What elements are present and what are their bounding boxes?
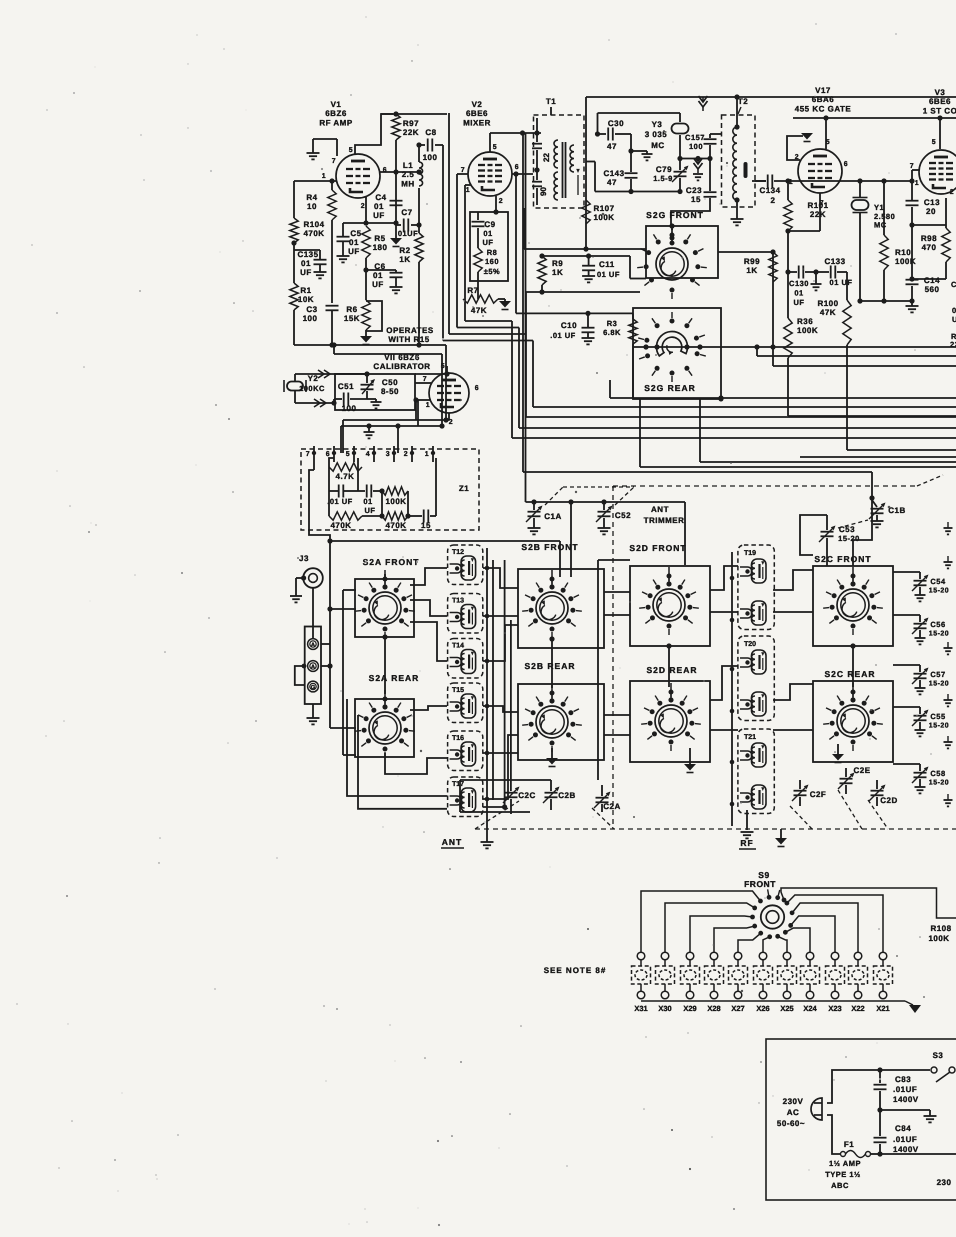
svg-text:C2D: C2D <box>880 796 898 805</box>
svg-text:R3: R3 <box>607 319 618 328</box>
svg-text:C55: C55 <box>930 712 945 721</box>
rotary switch S2D FRONT <box>639 567 699 635</box>
svg-text:100: 100 <box>689 142 703 151</box>
svg-text:100: 100 <box>303 314 318 323</box>
svg-text:180: 180 <box>373 243 388 252</box>
svg-text:15-20: 15-20 <box>929 780 949 787</box>
test point antenna symbol mid <box>693 156 703 181</box>
svg-text:6: 6 <box>326 451 330 458</box>
variable capacitor C53 <box>800 515 860 566</box>
svg-text:RF: RF <box>740 838 753 848</box>
capacitor C157 <box>685 133 721 159</box>
svg-text:15-20: 15-20 <box>929 723 949 730</box>
wires S2D to T19-21 <box>710 566 738 730</box>
svg-text:C130: C130 <box>789 279 809 288</box>
svg-text:OPERATES: OPERATES <box>386 326 434 335</box>
svg-text:UF: UF <box>365 506 376 515</box>
tube V1 6BZ6 RF AMP <box>319 100 380 198</box>
variable capacitor C1B <box>853 498 906 566</box>
capacitor C14 <box>906 222 941 306</box>
svg-text:TRIMMER: TRIMMER <box>644 516 685 525</box>
variable capacitor C58 <box>893 764 949 793</box>
svg-text:X28: X28 <box>707 1004 720 1013</box>
svg-text:6BE6: 6BE6 <box>929 97 951 106</box>
capacitor C13 <box>906 178 941 225</box>
resistor R104 <box>290 181 325 246</box>
svg-text:R1: R1 <box>300 286 311 295</box>
power supply enclosure <box>766 1039 956 1200</box>
rotary switch S2G FRONT <box>637 226 707 299</box>
wires between S2B and S2D <box>598 560 630 780</box>
svg-text:X22: X22 <box>851 1004 864 1013</box>
rotary switch S2C REAR <box>823 683 883 751</box>
rotary switch S9 <box>761 905 784 928</box>
capacitor C10 <box>516 311 633 345</box>
capacitor C23 <box>671 159 717 227</box>
label S2B FRONT <box>521 542 578 552</box>
resistor R10 <box>880 181 916 301</box>
wiring rect S2G FRONT <box>646 223 718 278</box>
inductor L1 2.5MH <box>401 145 422 188</box>
jack J3 <box>299 554 323 588</box>
svg-text:G: G <box>311 684 316 691</box>
svg-text:S2G REAR: S2G REAR <box>644 383 695 393</box>
svg-text:AC: AC <box>787 1108 800 1117</box>
svg-text:5: 5 <box>493 144 497 151</box>
capacitor C5 <box>337 223 362 262</box>
Z1 capacitor .01UF left <box>327 467 358 506</box>
rotary switch S2B REAR <box>522 684 582 752</box>
box crystal filter <box>586 113 680 192</box>
tube V3 6BE6 1ST CONV <box>919 88 956 194</box>
wire calibrator pin5 top <box>415 366 450 377</box>
svg-text:ABC: ABC <box>831 1181 849 1190</box>
svg-text:C30: C30 <box>608 119 624 128</box>
vertical rails right of T column <box>481 548 494 848</box>
svg-text:22K: 22K <box>403 128 419 137</box>
svg-text:C51: C51 <box>338 382 354 391</box>
svg-text:C50: C50 <box>382 378 398 387</box>
wiring rect S2C FRONT <box>813 566 893 646</box>
svg-text:UF: UF <box>348 247 360 256</box>
rotary switch S2C FRONT <box>823 567 883 635</box>
variable capacitor C2A <box>594 785 621 812</box>
svg-text:1K: 1K <box>552 268 563 277</box>
wire top rail y97 <box>586 97 956 249</box>
label SEE NOTE 8 <box>544 966 607 975</box>
svg-text:6: 6 <box>383 167 387 174</box>
wire calibrator pin7 <box>415 382 431 384</box>
dashed enclosure RF section <box>475 475 956 829</box>
svg-text:01UF: 01UF <box>398 229 418 238</box>
svg-text:MIXER: MIXER <box>463 118 491 127</box>
capacitor C11 <box>582 256 620 282</box>
svg-text:S2A REAR: S2A REAR <box>369 673 420 683</box>
label ANT TRIMMER <box>644 505 685 525</box>
svg-text:100KC: 100KC <box>299 384 325 393</box>
wire right rail y462 <box>700 399 956 462</box>
svg-text:1K: 1K <box>746 266 757 275</box>
pole links front-rear <box>382 634 855 694</box>
rotary switch S2G REAR <box>638 312 706 382</box>
svg-text:X25: X25 <box>780 1004 793 1013</box>
svg-text:2: 2 <box>499 198 503 205</box>
Z1 capacitor 01UF mid <box>358 458 382 515</box>
wire rail y301 <box>857 298 914 303</box>
svg-text:C2C: C2C <box>518 791 536 800</box>
svg-text:X31: X31 <box>634 1004 647 1013</box>
wire S2G REAR row <box>633 344 956 401</box>
svg-text:8-50: 8-50 <box>381 387 399 396</box>
svg-text:2.5: 2.5 <box>402 170 415 179</box>
svg-text:R101: R101 <box>807 201 828 210</box>
Z1 capacitor 15 <box>405 458 436 530</box>
svg-text:X23: X23 <box>828 1004 841 1013</box>
svg-text:UF: UF <box>483 238 494 247</box>
svg-text:.01 UF: .01 UF <box>327 497 353 506</box>
Z1 resistor 100K <box>382 487 408 506</box>
socket X28 <box>705 952 724 1013</box>
dashed diag C53 C1B <box>838 520 868 528</box>
resistor R101 <box>784 178 829 318</box>
svg-text:1: 1 <box>426 402 430 409</box>
svg-text:RF AMP: RF AMP <box>319 118 353 127</box>
svg-text:J3: J3 <box>299 554 309 563</box>
wire left vert S2A <box>343 590 356 755</box>
resistor R2 <box>399 233 423 345</box>
switch S3 <box>931 1051 955 1082</box>
svg-text:X24: X24 <box>803 1004 817 1013</box>
ground top-left of V1 <box>307 139 338 159</box>
capacitor C135 <box>294 250 327 278</box>
svg-text:1: 1 <box>466 187 470 194</box>
wire rail y118 to V3 <box>793 115 956 149</box>
socket X27 <box>729 952 748 1013</box>
svg-text:MC: MC <box>651 141 664 150</box>
label fuse type <box>825 1159 861 1190</box>
fuse F1 <box>827 1115 956 1158</box>
wire R4 to C3 <box>331 220 333 303</box>
pin labels V1 <box>322 147 387 210</box>
svg-text:15K: 15K <box>344 314 360 323</box>
svg-text:230: 230 <box>937 1178 952 1187</box>
label S2D FRONT <box>629 543 686 553</box>
svg-text:1½ AMP: 1½ AMP <box>829 1159 861 1168</box>
resistor R107 <box>582 200 615 224</box>
ground under S2B REAR <box>546 748 558 767</box>
wire bottom V1 bus <box>294 342 446 347</box>
box around C9 R8 <box>470 212 508 281</box>
svg-text:±5%: ±5% <box>484 267 500 276</box>
socket X24 <box>801 952 820 1013</box>
wiring rect S2D FRONT <box>630 566 710 646</box>
wiring rect S2B FRONT <box>518 569 604 648</box>
small grounds right edge <box>944 522 953 806</box>
svg-text:S2B FRONT: S2B FRONT <box>521 542 578 552</box>
svg-text:01 UF: 01 UF <box>830 278 853 287</box>
svg-text:1K: 1K <box>399 255 410 264</box>
svg-text:S2D REAR: S2D REAR <box>647 665 698 675</box>
resistor R7 47K <box>463 272 498 315</box>
capacitor C134 <box>752 175 798 206</box>
svg-text:01: 01 <box>363 497 372 506</box>
wire staircase to buses <box>443 113 533 341</box>
svg-text:C134: C134 <box>759 186 780 195</box>
svg-text:CALIBRATOR: CALIBRATOR <box>373 362 430 371</box>
label 230 cut <box>937 1178 952 1187</box>
transformer T15 <box>448 683 483 723</box>
svg-text:C2E: C2E <box>853 766 870 775</box>
svg-text:T1: T1 <box>546 97 556 106</box>
svg-text:UF: UF <box>794 298 805 307</box>
pin labels V3 <box>910 139 954 196</box>
capacitor C133 <box>816 257 852 287</box>
wire cathode rail y292 <box>526 291 640 293</box>
svg-text:MH: MH <box>401 179 414 188</box>
svg-text:2: 2 <box>950 189 954 196</box>
label S2G REAR <box>644 383 695 393</box>
svg-text:455 KC GATE: 455 KC GATE <box>795 104 852 113</box>
svg-text:T12: T12 <box>452 549 464 556</box>
svg-text:T17: T17 <box>452 781 464 788</box>
svg-text:7: 7 <box>306 451 310 458</box>
wire bus F y472 <box>523 472 875 501</box>
svg-text:R8: R8 <box>487 248 498 257</box>
svg-text:.01UF: .01UF <box>893 1085 917 1094</box>
svg-text:10K: 10K <box>298 295 314 304</box>
capacitor C6 <box>366 262 403 293</box>
svg-text:R104: R104 <box>303 220 324 229</box>
left rail of T19 column <box>730 552 735 826</box>
wire bus B y407 <box>533 341 956 408</box>
rotary switch S2B FRONT <box>522 570 582 638</box>
svg-text:01: 01 <box>301 259 311 268</box>
svg-text:C1B: C1B <box>888 506 906 515</box>
socket bus wire <box>641 1000 905 1002</box>
label S2D REAR <box>647 665 698 675</box>
svg-text:6: 6 <box>515 164 519 171</box>
pin labels V17 <box>789 139 848 207</box>
resistor R8 160 <box>474 228 500 276</box>
wire C13 R98 link <box>912 225 946 279</box>
wire T2 to C134 <box>755 180 766 182</box>
svg-text:S2G FRONT: S2G FRONT <box>646 210 704 220</box>
wire pin6 V2 <box>512 133 533 502</box>
tube V11 6BZ6 CALIBRATOR <box>373 353 469 413</box>
svg-text:01: 01 <box>373 271 383 280</box>
svg-text:15: 15 <box>421 521 431 530</box>
AC plug <box>811 1098 822 1120</box>
S9 spare contacts <box>767 889 780 900</box>
wire right rail y457 <box>800 456 956 458</box>
svg-text:T15: T15 <box>452 687 464 694</box>
capacitor C84 <box>874 1110 919 1157</box>
svg-text:C2B: C2B <box>558 791 576 800</box>
svg-text:T16: T16 <box>452 735 464 742</box>
svg-text:V2: V2 <box>472 100 483 109</box>
ground mid power <box>880 1110 937 1122</box>
svg-text:47: 47 <box>607 178 617 187</box>
svg-text:S2C FRONT: S2C FRONT <box>814 554 871 564</box>
transformer T14 <box>448 639 483 679</box>
socket X31 <box>632 952 651 1013</box>
svg-text:S3: S3 <box>933 1051 944 1060</box>
resistor R99 <box>744 252 777 366</box>
svg-text:15-20: 15-20 <box>929 631 949 638</box>
wiring rect S2G REAR <box>633 308 721 399</box>
svg-text:160: 160 <box>485 257 499 266</box>
svg-text:C6: C6 <box>374 262 385 271</box>
svg-text:3: 3 <box>386 451 390 458</box>
svg-text:470K: 470K <box>303 229 324 238</box>
svg-text:90: 90 <box>539 187 548 196</box>
wiring rect S2B REAR <box>518 684 604 760</box>
svg-text:T19: T19 <box>744 550 756 557</box>
wire right rail y450 <box>847 449 956 451</box>
capacitor C4 <box>373 193 402 220</box>
svg-text:2: 2 <box>404 451 408 458</box>
svg-text:R97: R97 <box>403 119 419 128</box>
box around C51 C50 <box>335 374 415 410</box>
svg-text:C23: C23 <box>686 186 702 195</box>
svg-text:R99: R99 <box>744 257 760 266</box>
svg-text:7: 7 <box>423 376 427 383</box>
Z1 resistor 470K left <box>329 491 382 530</box>
svg-text:470K: 470K <box>385 521 406 530</box>
svg-text:R98: R98 <box>921 234 937 243</box>
svg-text:UF: UF <box>372 280 384 289</box>
svg-text:C13: C13 <box>924 198 940 207</box>
svg-text:C3: C3 <box>306 305 317 314</box>
svg-text:T13: T13 <box>452 598 464 605</box>
svg-text:7: 7 <box>910 163 914 170</box>
svg-text:C4: C4 <box>375 193 386 202</box>
wiring rect S2C REAR <box>813 681 893 762</box>
variable capacitor C2D <box>869 780 898 806</box>
crystal Y1 2.580MC <box>852 181 896 301</box>
svg-text:C133: C133 <box>824 257 845 266</box>
wire V17 pin7 down <box>785 193 820 234</box>
svg-text:5: 5 <box>346 451 350 458</box>
svg-text:1400V: 1400V <box>893 1145 919 1154</box>
wire pin1 V1 <box>294 178 336 183</box>
svg-text:100: 100 <box>342 404 357 413</box>
dashed gang link C1A C52 <box>545 487 634 505</box>
terminal strip A A G <box>295 588 321 704</box>
svg-text:47: 47 <box>607 142 617 151</box>
variable capacitor C55 <box>893 707 949 736</box>
variable capacitor C52 <box>596 502 631 534</box>
rotary switch S2D REAR <box>641 683 701 751</box>
resistor R9 <box>538 256 563 295</box>
svg-text:C52: C52 <box>615 511 631 520</box>
svg-text:100K: 100K <box>385 497 406 506</box>
svg-text:6BZ6: 6BZ6 <box>325 109 347 118</box>
svg-text:WITH R15: WITH R15 <box>388 335 429 344</box>
capacitor C30 <box>595 119 631 151</box>
svg-text:01: 01 <box>349 238 359 247</box>
label operates with R15 <box>386 326 434 344</box>
svg-text:X26: X26 <box>756 1004 769 1013</box>
svg-text:C58: C58 <box>930 769 945 778</box>
tube V17 6BA6 455KC GATE <box>795 86 852 193</box>
svg-text:1.5-9: 1.5-9 <box>653 174 673 183</box>
label S2B REAR <box>525 661 576 671</box>
svg-text:C53: C53 <box>839 525 855 534</box>
svg-text:.01 UF: .01 UF <box>550 331 576 340</box>
svg-text:V17: V17 <box>815 86 831 95</box>
ground under T2 <box>731 200 744 225</box>
svg-text:100K: 100K <box>797 326 818 335</box>
S9 fan wires <box>641 891 883 952</box>
svg-text:T2: T2 <box>738 97 748 106</box>
svg-text:7: 7 <box>332 158 336 165</box>
label S2A FRONT <box>363 557 420 567</box>
wire bus E y438 <box>512 321 956 438</box>
svg-text:1: 1 <box>915 180 919 187</box>
variable capacitor C2E <box>838 766 871 794</box>
svg-text:1400V: 1400V <box>893 1095 919 1104</box>
wire bottom S2B row <box>460 780 551 814</box>
svg-text:S2B REAR: S2B REAR <box>525 661 576 671</box>
wire R97 bottom to pin6 rail <box>393 140 398 223</box>
svg-text:R5: R5 <box>374 234 385 243</box>
svg-text:22K: 22K <box>810 210 826 219</box>
capacitor C130 <box>785 266 816 308</box>
svg-text:C10: C10 <box>561 321 577 330</box>
svg-text:Y2: Y2 <box>308 374 319 383</box>
resistor R36 <box>784 317 818 416</box>
wire rail y158 <box>680 156 713 161</box>
capacitor C143 <box>603 134 637 194</box>
svg-text:4: 4 <box>366 451 370 458</box>
svg-text:100K: 100K <box>928 934 949 943</box>
resistor R97 <box>381 111 447 140</box>
transformer T20 <box>738 636 774 721</box>
wire right rails y356 y366 <box>754 344 956 366</box>
svg-text:230V: 230V <box>783 1097 804 1106</box>
svg-text:SEE NOTE 8#: SEE NOTE 8# <box>544 966 607 975</box>
wire S2G to R99 <box>718 249 776 254</box>
wire V3 pin7 <box>912 170 919 181</box>
capacitor C3 <box>303 305 339 345</box>
variable capacitor C54 <box>893 572 949 601</box>
svg-text:01 UF: 01 UF <box>597 270 620 279</box>
resistor R5 <box>362 226 388 300</box>
svg-text:T21: T21 <box>744 734 756 741</box>
transformer T16 <box>448 731 483 771</box>
svg-text:15-20: 15-20 <box>929 681 949 688</box>
svg-text:C143: C143 <box>603 169 624 178</box>
socket X29 <box>681 952 700 1013</box>
svg-text:5: 5 <box>349 147 353 154</box>
svg-text:T20: T20 <box>744 641 756 648</box>
svg-text:R7: R7 <box>467 286 478 295</box>
variable capacitor C1A <box>526 502 562 534</box>
Z1 resistor 470K right <box>379 488 408 530</box>
ground between C130 C133 <box>811 269 822 290</box>
svg-text:U: U <box>952 315 956 324</box>
svg-text:C1: C1 <box>951 280 956 289</box>
rotary switch S2A REAR <box>355 690 415 758</box>
svg-text:S2C REAR: S2C REAR <box>825 669 876 679</box>
ground loop pin2 V17 <box>787 133 813 160</box>
variable capacitor C2C <box>503 787 536 811</box>
svg-text:2: 2 <box>771 196 776 205</box>
crystal Y3 3.035MC <box>645 113 689 161</box>
cut labels right edge <box>950 280 956 349</box>
tube V2 6BE6 MIXER <box>463 100 512 196</box>
